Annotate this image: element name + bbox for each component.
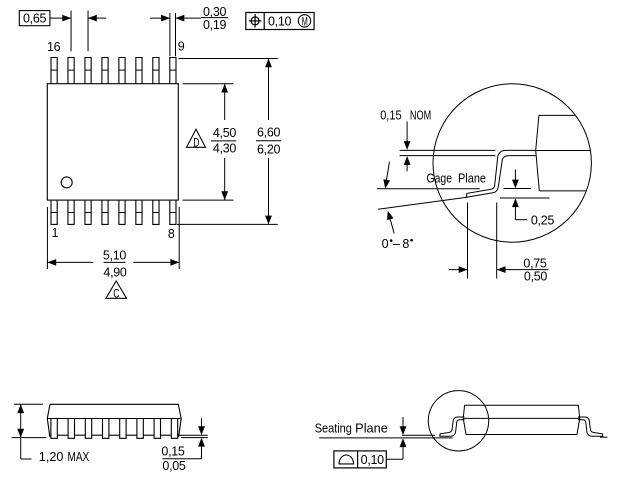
seating plane line bbox=[319, 437, 452, 439]
svg-text:1,20: 1,20 bbox=[39, 450, 64, 464]
svg-text:MAX: MAX bbox=[68, 450, 90, 464]
pin 2 (bottom row) bbox=[68, 200, 74, 224]
svg-text:Seating: Seating bbox=[315, 421, 352, 435]
pin 15 (top row) bbox=[68, 58, 74, 84]
parting line (end view) bbox=[463, 417, 580, 419]
0,15/0,05 arrows bbox=[201, 418, 203, 434]
svg-text:Plane: Plane bbox=[458, 172, 486, 186]
svg-text:4,50: 4,50 bbox=[213, 126, 236, 140]
pin 1 (bottom row) bbox=[51, 200, 57, 224]
svg-text:16: 16 bbox=[47, 40, 61, 54]
pin 6 (bottom row) bbox=[136, 200, 142, 224]
1,20 MAX dimension line and leader bbox=[20, 404, 22, 459]
0,65 extension line (pin 15 center) bbox=[70, 11, 72, 52]
svg-text:9: 9 bbox=[178, 40, 185, 54]
revision triangle C bbox=[106, 281, 127, 298]
4,50/4,30 bottom extension line bbox=[183, 199, 234, 201]
pin 16 (top row) bbox=[51, 58, 57, 84]
5,10/4,90 dimension line bbox=[47, 261, 93, 263]
svg-text:D: D bbox=[193, 137, 200, 150]
svg-text:8: 8 bbox=[168, 227, 175, 241]
svg-text:M: M bbox=[302, 16, 308, 29]
0-8 degree angle arrow bbox=[389, 214, 395, 234]
0,30/0,19 left arrow bbox=[150, 17, 169, 19]
back row lead bottoms (front view) bbox=[57, 434, 68, 436]
0,15 NOM reference lines (lead thickness) bbox=[400, 149, 496, 151]
package body (front view) bbox=[50, 404, 181, 437]
modifier circle M bbox=[298, 15, 310, 27]
5,10/4,90 left extension line bbox=[46, 207, 48, 269]
package body (top view) bbox=[47, 84, 178, 200]
0,15 NOM down arrow bbox=[406, 122, 408, 149]
seating plane leader elbow to frame bbox=[386, 458, 403, 460]
pin 9 width extension line left bbox=[169, 13, 171, 56]
0,25 upper reference line bbox=[504, 188, 531, 190]
pin 9 width extension line right bbox=[175, 13, 177, 56]
svg-text:0,30: 0,30 bbox=[203, 5, 226, 19]
pin 10 (top row) bbox=[153, 58, 159, 84]
body bottom edge (detail) bbox=[539, 190, 586, 192]
front lead 6 (front view) bbox=[137, 419, 143, 439]
4,50/4,30 dimension line with arrows bbox=[224, 84, 226, 120]
feature control frame: seating plane flatness 0,10 bbox=[334, 451, 386, 468]
svg-text:0,75: 0,75 bbox=[523, 256, 546, 270]
svg-text:6,20: 6,20 bbox=[257, 142, 280, 156]
svg-text:0,10: 0,10 bbox=[361, 453, 384, 467]
right lead (end view) bbox=[578, 417, 603, 436]
pin 8 (bottom row) bbox=[170, 200, 176, 224]
6,60/6,20 dimension line with arrows bbox=[268, 59, 270, 121]
svg-text:6,60: 6,60 bbox=[257, 126, 280, 140]
lead cross-section (detail) bbox=[467, 150, 536, 197]
4,50/4,30 top extension line bbox=[183, 83, 234, 85]
seating plane arrows bbox=[402, 417, 404, 434]
svg-text:Gage: Gage bbox=[427, 172, 453, 186]
svg-text:4,30: 4,30 bbox=[213, 141, 236, 155]
svg-text:NOM: NOM bbox=[410, 109, 431, 123]
pin 12 (top row) bbox=[119, 58, 125, 84]
pin 13 (top row) bbox=[102, 58, 108, 84]
svg-text:0,05: 0,05 bbox=[162, 459, 185, 473]
0-8 degree seating line (angled) bbox=[378, 197, 467, 209]
1,20 MAX bottom extension line (seating plane) bbox=[12, 437, 47, 439]
0,65 leader line with arrow bbox=[50, 17, 71, 19]
0,15 NOM up arrow bbox=[406, 158, 408, 172]
pin 7 (bottom row) bbox=[153, 200, 159, 224]
svg-text:–: – bbox=[393, 237, 400, 251]
pin 9 (top row) bbox=[170, 58, 176, 84]
pin 5 (bottom row) bbox=[119, 200, 125, 224]
package body (end view) bbox=[463, 405, 580, 434]
svg-text:1: 1 bbox=[52, 226, 59, 240]
left lead (end view) bbox=[440, 417, 465, 436]
front lead 3 (front view) bbox=[85, 419, 91, 439]
front lead 7 (front view) bbox=[154, 419, 160, 439]
svg-text:0,10: 0,10 bbox=[268, 15, 291, 29]
body parting line (detail) bbox=[536, 150, 590, 152]
0,25 arrows bbox=[514, 170, 516, 188]
feature control frame: position 0,10 M bbox=[246, 13, 314, 30]
front lead 2 (front view) bbox=[68, 419, 74, 439]
revision triangle D bbox=[187, 129, 206, 147]
0,30/0,19 right arrow leader bbox=[176, 17, 201, 19]
svg-text:0,15: 0,15 bbox=[380, 109, 401, 123]
svg-text:C: C bbox=[113, 288, 120, 301]
svg-text:0,19: 0,19 bbox=[203, 18, 226, 32]
detail view circle bbox=[433, 84, 591, 242]
front lead 5 (front view) bbox=[120, 419, 126, 439]
0,75/0,50 left extension line bbox=[467, 203, 469, 279]
svg-text:0,50: 0,50 bbox=[524, 269, 547, 283]
dimension 0,65 boxed value bbox=[19, 11, 50, 26]
0,65 right arrow bbox=[89, 17, 107, 19]
svg-text:0,25: 0,25 bbox=[531, 214, 554, 228]
pin 3 (bottom row) bbox=[85, 200, 91, 224]
6,60/6,20 top extension line bbox=[179, 58, 278, 60]
pin 1 index circle bbox=[61, 177, 72, 188]
svg-text:0: 0 bbox=[382, 237, 389, 251]
front lead 8 (front view) bbox=[171, 419, 177, 439]
front lead 4 (front view) bbox=[103, 419, 109, 439]
0,25 leader elbow bbox=[515, 219, 527, 221]
svg-text:Plane: Plane bbox=[355, 421, 388, 435]
svg-text:5,10: 5,10 bbox=[103, 248, 126, 262]
body bottom line (front view) bbox=[47, 418, 181, 420]
package body edge (detail) bbox=[539, 114, 576, 116]
standoff reference lines (right) bbox=[177, 434, 207, 436]
0,75/0,50 right extension line bbox=[496, 203, 498, 279]
gage plane line bbox=[377, 188, 480, 190]
0,25 lower reference line (seating plane) bbox=[500, 197, 550, 199]
front lead 1 (front view) bbox=[51, 419, 57, 439]
0,65 extension line (pin 14 center) bbox=[87, 11, 89, 52]
0,75/0,50 arrows bbox=[449, 269, 467, 271]
0,15/0,05 fraction bar / leader bbox=[162, 458, 201, 460]
seating plane symbol (half dome) bbox=[339, 455, 354, 464]
5,10/4,90 right extension line bbox=[178, 207, 180, 269]
detail reference circle (end view) bbox=[428, 391, 488, 451]
1,20 MAX top extension line bbox=[14, 403, 43, 405]
pin 11 (top row) bbox=[136, 58, 142, 84]
seating plane segment right of right lead bbox=[600, 436, 608, 438]
6,60/6,20 bottom extension line bbox=[177, 223, 278, 225]
svg-text:4,90: 4,90 bbox=[103, 265, 126, 279]
gage plane leader arrow bbox=[386, 162, 390, 185]
standoff upper reference line (end view) bbox=[402, 434, 435, 436]
pin 14 (top row) bbox=[85, 58, 91, 84]
svg-text:0,65: 0,65 bbox=[23, 11, 46, 25]
true position symbol bbox=[251, 17, 259, 25]
svg-text:8: 8 bbox=[402, 237, 409, 251]
pin 4 (bottom row) bbox=[102, 200, 108, 224]
svg-text:0,15: 0,15 bbox=[161, 444, 184, 458]
